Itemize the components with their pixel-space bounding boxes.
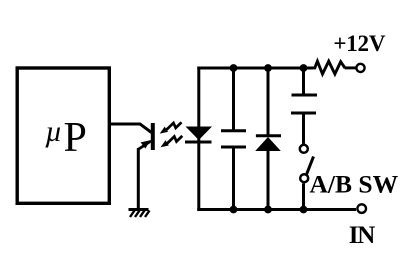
junction dot bottom rail at switch: [300, 206, 308, 214]
switch S1 lower contact: [300, 174, 308, 182]
diode D2 branch wire top: [267, 68, 270, 137]
label IN: [349, 222, 376, 249]
terminal +12V: [356, 64, 364, 72]
junction dot bottom rail at C1: [230, 206, 238, 214]
ground symbol: [129, 210, 150, 218]
left branch wire (diode D1 branch): [197, 67, 200, 212]
diode D1: [185, 127, 212, 143]
label +12V: [333, 31, 386, 56]
wire C2 to switch: [302, 113, 305, 144]
switch S1 lever: [307, 157, 314, 175]
junction dot top rail at C1: [230, 64, 238, 72]
junction dot top rail at C2: [300, 64, 308, 72]
wire emitter to ground: [137, 148, 140, 209]
bottom rail wire: [197, 208, 356, 211]
resistor R1: [313, 61, 345, 74]
label µP: [45, 115, 87, 161]
svg-text:P: P: [64, 115, 87, 161]
wire switch to bottom rail: [302, 183, 305, 209]
phototransistor Q1 base bar: [151, 123, 155, 150]
svg-text:IN: IN: [349, 222, 376, 249]
junction dot bottom rail at D2: [264, 206, 272, 214]
diode D2: [255, 136, 281, 151]
capacitor C2 branch wire top: [302, 68, 305, 95]
wire resistor to +12V terminal: [345, 66, 357, 69]
terminal IN: [357, 204, 366, 213]
junction dot top rail at D2: [264, 64, 272, 72]
capacitor C1 branch wire bottom: [232, 147, 235, 210]
light arrow 1: [160, 122, 182, 133]
top rail wire: [197, 67, 313, 70]
capacitor C1: [221, 131, 246, 147]
light arrow 2: [161, 136, 183, 147]
microprocessor box U1: [17, 68, 109, 203]
capacitor C2: [291, 95, 317, 113]
wire from µP to phototransistor collector: [110, 124, 152, 133]
svg-text:A/B SW: A/B SW: [310, 170, 399, 199]
phototransistor Q1 emitter with arrow: [138, 140, 151, 149]
label A/B SW: [310, 170, 399, 199]
svg-text:µ: µ: [45, 115, 62, 148]
svg-text:+12V: +12V: [333, 31, 386, 56]
diode D2 branch wire bottom: [267, 151, 270, 210]
switch S1 upper contact: [300, 145, 308, 153]
capacitor C1 branch wire top: [232, 68, 235, 131]
